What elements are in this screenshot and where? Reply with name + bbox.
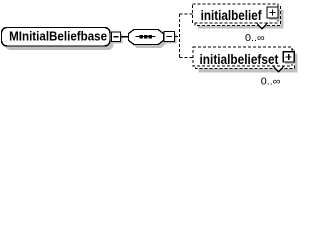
element initialbeliefset box — [193, 47, 292, 66]
initialbeliefset expand box (plus) — [283, 52, 294, 62]
sequence dot 3 — [149, 35, 152, 38]
element initialbelief box — [193, 4, 279, 23]
expand box 2 minus sign — [167, 36, 173, 38]
dashed wire stub to branch — [175, 36, 180, 38]
dashed wire to initialbelief — [180, 13, 193, 15]
svg-text:initialbeliefset: initialbeliefset — [200, 51, 279, 67]
svg-text:0..∞: 0..∞ — [261, 76, 281, 87]
initialbelief notch — [257, 24, 268, 30]
expand box 1 (minus) — [112, 32, 121, 42]
expand box 1 shadow — [114, 34, 123, 44]
expand box 2 shadow — [166, 34, 177, 44]
element MInitialBeliefbase shadow — [5, 31, 114, 50]
dashed wire to initialbeliefset — [180, 57, 193, 59]
expand box 2 (minus) — [164, 32, 175, 42]
initialbeliefset notch — [273, 67, 284, 73]
element initialbeliefset back (multi) box — [196, 50, 295, 69]
element initialbelief back (multi) box — [195, 7, 281, 26]
initialbeliefset plus sign — [286, 56, 292, 58]
sequence compositor octagon — [129, 30, 164, 45]
expand box 1 minus sign — [114, 36, 119, 38]
svg-text:initialbelief: initialbelief — [201, 7, 262, 23]
initialbelief plus sign — [270, 12, 276, 14]
initialbelief expand box (plus) — [267, 7, 278, 18]
sequence dot 2 — [144, 35, 147, 38]
sequence dot 1 — [140, 35, 143, 38]
svg-text:MInitialBeliefbase: MInitialBeliefbase — [9, 29, 107, 44]
element MInitialBeliefbase box — [2, 28, 111, 47]
dashed branch vertical wire — [179, 14, 181, 58]
initialbelief expand box shadow — [269, 9, 280, 20]
sequence compositor shadow — [132, 33, 167, 49]
wire main box to sequence — [121, 36, 129, 38]
element initialbeliefset shadow — [199, 54, 298, 73]
sequence inner line — [136, 36, 156, 38]
initialbeliefset expand box shadow — [285, 54, 296, 64]
element initialbelief shadow — [198, 10, 284, 29]
svg-text:0..∞: 0..∞ — [245, 33, 265, 44]
